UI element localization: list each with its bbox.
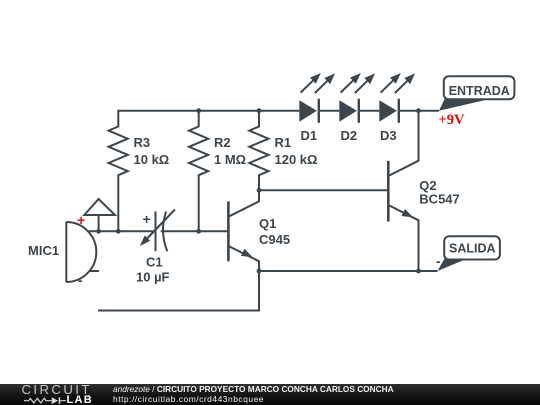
svg-text:SALIDA: SALIDA [449,241,496,255]
svg-text:-: - [78,272,83,288]
svg-text:C1: C1 [146,255,163,270]
svg-text:ENTRADA: ENTRADA [449,84,510,98]
svg-text:10 kΩ: 10 kΩ [134,152,170,167]
svg-text:Q1: Q1 [259,216,276,231]
svg-text:+: + [143,211,151,227]
svg-text:BC547: BC547 [419,192,459,207]
svg-text:120 kΩ: 120 kΩ [275,152,318,167]
svg-text:1 MΩ: 1 MΩ [214,152,246,167]
svg-text:D3: D3 [380,128,397,143]
svg-text:R2: R2 [214,135,231,150]
svg-text:D1: D1 [301,128,318,143]
svg-text:MIC1: MIC1 [28,243,59,258]
svg-text:+9V: +9V [439,112,466,128]
svg-text:10 µF: 10 µF [136,270,170,285]
svg-text:R1: R1 [275,135,292,150]
svg-text:D2: D2 [341,128,358,143]
svg-text:C945: C945 [259,232,290,247]
svg-text:+: + [77,212,85,228]
svg-text:R3: R3 [134,135,151,150]
svg-text:-: - [436,253,441,269]
